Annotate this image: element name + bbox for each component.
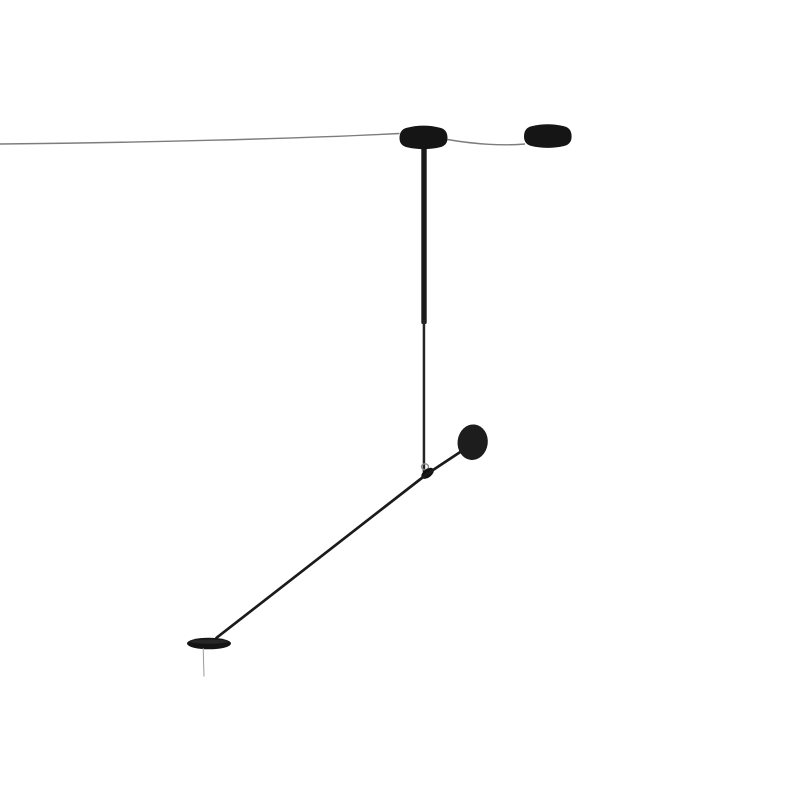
arm upper segment [427,451,463,475]
lower stem (thin section) [423,320,426,472]
pull cord [202,648,205,677]
counterweight puck [524,124,572,148]
arm lower segment [217,474,428,638]
pivot ring [422,464,429,470]
pivot clamp [419,466,436,481]
lamp head disc [456,423,490,462]
suspension cable between canopy and counterweight [448,140,526,145]
upper rod (thick section) [421,140,426,324]
shade top surface highlight [190,639,228,643]
suspension cable left run [0,134,400,145]
ceiling canopy puck [400,126,448,150]
bottom shade disc [187,638,231,650]
